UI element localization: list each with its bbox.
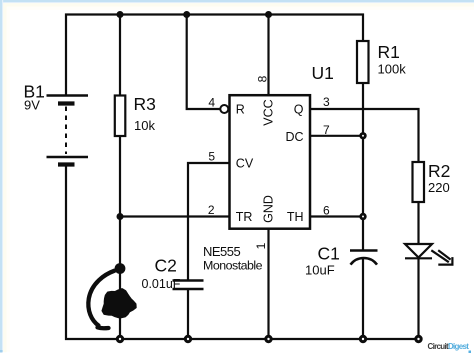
svg-text:7: 7 bbox=[323, 123, 330, 137]
wire pin7 DC to R1 line bbox=[310, 135, 363, 137]
svg-text:R: R bbox=[236, 102, 245, 116]
wire battery bottom to ground rail bbox=[66, 164, 419, 339]
capacitor C1 (polarized) bbox=[350, 249, 378, 252]
svg-text:9V: 9V bbox=[24, 98, 40, 113]
page border blue left bbox=[0, 0, 2, 352]
wire R1 bottom down to C1 bbox=[362, 83, 364, 250]
svg-text:U1: U1 bbox=[312, 63, 334, 83]
svg-text:1: 1 bbox=[254, 242, 268, 249]
junction dots top rail bbox=[117, 11, 273, 18]
op IC U1 NE555 box bbox=[230, 95, 311, 229]
wire LED to ground bbox=[417, 258, 419, 339]
svg-text:4: 4 bbox=[208, 95, 215, 109]
resistor R3 bbox=[115, 96, 126, 137]
svg-text:Q: Q bbox=[294, 102, 304, 116]
svg-text:CV: CV bbox=[236, 157, 254, 171]
svg-text:TH: TH bbox=[287, 210, 304, 224]
svg-text:CircuitDigest: CircuitDigest bbox=[428, 342, 470, 351]
wire C1 bottom to ground bbox=[362, 258, 364, 339]
svg-text:Monostable: Monostable bbox=[203, 259, 263, 273]
wire R3 bottom to button and ground bbox=[119, 136, 121, 339]
wire top rail bbox=[66, 15, 363, 96]
page border blue top bbox=[0, 0, 474, 2]
svg-text:3: 3 bbox=[323, 95, 330, 109]
junction dot TR / R3 bbox=[117, 213, 124, 220]
svg-text:C1: C1 bbox=[318, 244, 340, 264]
wire pin4 reset from top rail bbox=[187, 15, 221, 110]
wire pin3 Q output bbox=[310, 109, 419, 162]
battery B1 bbox=[47, 96, 89, 165]
svg-text:DC: DC bbox=[285, 130, 303, 144]
svg-text:10k: 10k bbox=[134, 118, 155, 133]
wire pin6 TH to C1 line bbox=[310, 215, 363, 217]
wire pin1 GND down bbox=[267, 229, 269, 340]
svg-text:R1: R1 bbox=[378, 42, 400, 62]
junction dot pin7 / R1 line bbox=[359, 132, 366, 139]
page border cream band left bbox=[3, 3, 7, 352]
wire pin8 VCC bbox=[267, 15, 269, 96]
svg-text:GND: GND bbox=[262, 195, 276, 223]
wire C2 bottom to ground bbox=[187, 290, 189, 339]
wire TR pin2 bbox=[120, 215, 230, 217]
ground rail rings bbox=[117, 336, 421, 341]
svg-text:C2: C2 bbox=[155, 256, 177, 276]
svg-text:TR: TR bbox=[236, 210, 253, 224]
svg-text:5: 5 bbox=[208, 150, 215, 164]
push button hand-drawn blob bbox=[103, 289, 136, 317]
svg-text:0.01uF: 0.01uF bbox=[142, 277, 181, 291]
svg-text:8: 8 bbox=[255, 75, 269, 82]
wire R2 bottom to LED bbox=[417, 202, 419, 244]
capacitor C2 bbox=[173, 281, 204, 290]
svg-text:NE555: NE555 bbox=[203, 244, 241, 259]
wire CV pin5 to C2 bbox=[188, 163, 230, 280]
pin 4 bubble bbox=[220, 105, 228, 113]
wire R3 top bbox=[119, 15, 121, 96]
LED D1 bbox=[405, 244, 452, 265]
svg-text:2: 2 bbox=[208, 203, 215, 217]
page border blue dot bottom-left bbox=[0, 350, 3, 353]
svg-text:220: 220 bbox=[428, 180, 450, 195]
push button hand-drawn arc bbox=[88, 271, 114, 329]
svg-text:100k: 100k bbox=[378, 62, 407, 77]
svg-text:R2: R2 bbox=[428, 161, 450, 181]
resistor R2 bbox=[413, 162, 425, 202]
page border cream band top bbox=[0, 3, 474, 7]
push button hand-drawn dot bbox=[115, 263, 126, 274]
svg-text:VCC: VCC bbox=[262, 99, 276, 125]
junction dot pin6 / C1 line bbox=[359, 213, 366, 220]
resistor R1 bbox=[357, 41, 369, 83]
svg-text:R3: R3 bbox=[134, 94, 156, 114]
svg-text:10uF: 10uF bbox=[305, 263, 335, 278]
svg-text:6: 6 bbox=[323, 204, 330, 218]
